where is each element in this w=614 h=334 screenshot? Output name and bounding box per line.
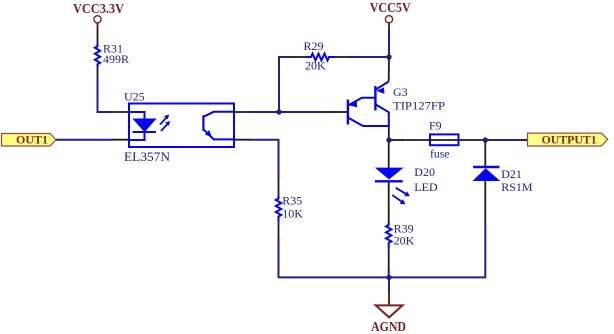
resistor R35 body — [276, 194, 303, 223]
svg-text:R35: R35 — [282, 194, 302, 208]
power port VCC3.3V — [73, 2, 124, 27]
svg-text:OUTPUT1: OUTPUT1 — [542, 134, 597, 146]
wire junction to OUTPUT1 — [485, 139, 527, 141]
svg-text:D21: D21 — [501, 167, 522, 181]
fuse F9 — [429, 119, 459, 161]
pin R29 left — [294, 56, 307, 58]
pin R35 top — [278, 180, 280, 196]
svg-text:VCC5V: VCC5V — [370, 1, 411, 16]
wire junction to fuse — [389, 139, 404, 141]
diode U25 internal LED — [130, 112, 156, 140]
pin R35 bottom — [278, 222, 280, 236]
transistor U25 phototransistor — [203, 112, 233, 140]
wire R39 to ground rail — [388, 269, 390, 277]
wire VCC5V down to junction — [388, 28, 390, 57]
svg-text:20K: 20K — [394, 234, 415, 248]
net label OUT1 — [2, 134, 57, 147]
svg-text:499R: 499R — [103, 52, 129, 66]
wire rail to AGND — [388, 277, 390, 293]
wire R35 to ground rail — [278, 235, 280, 278]
svg-text:RS1M: RS1M — [501, 180, 533, 194]
svg-text:D20: D20 — [414, 165, 435, 179]
svg-text:VCC3.3V: VCC3.3V — [73, 2, 124, 17]
pin G3 collector — [388, 126, 390, 140]
svg-text:G3: G3 — [393, 85, 408, 99]
svg-text:TIP127FP: TIP127FP — [393, 99, 445, 113]
pin G3 base — [335, 111, 347, 113]
wire D21 to ground rail — [279, 224, 486, 277]
pin D21 anode — [484, 181, 486, 225]
svg-text:U25: U25 — [124, 89, 145, 103]
pin R39 bottom — [388, 249, 390, 270]
pin R31 bottom — [97, 67, 99, 78]
svg-text:R29: R29 — [304, 39, 324, 53]
wire OUT1 to U25 pin2 — [56, 139, 113, 141]
pin R31 top — [97, 27, 99, 44]
pin D20 anode (from junction down) — [388, 140, 390, 168]
pin U25 collector — [234, 111, 251, 113]
U25 LED emission arrows — [160, 115, 170, 132]
wire junction up to R29 — [279, 57, 294, 111]
diode D20 LED — [375, 165, 438, 194]
wire R29 to VCC5V line — [350, 56, 390, 58]
junction node fuse/D21/OUTPUT1 — [483, 137, 488, 142]
resistor R29 body — [304, 39, 336, 73]
junction node ground rail / AGND — [386, 275, 391, 280]
svg-text:OUT1: OUT1 — [16, 135, 48, 147]
resistor R39 body — [386, 221, 415, 249]
junction node at R29 tap — [276, 109, 281, 114]
svg-text:10K: 10K — [282, 207, 303, 221]
pin U25 emitter — [234, 139, 251, 141]
pin U25 anode — [112, 111, 130, 113]
wire U25 emitter down through R35 — [250, 140, 279, 181]
resistor R31 body — [95, 42, 129, 68]
pin R29 right — [336, 56, 350, 58]
pin G3 emitter (VCC line down to transistor) — [388, 57, 390, 82]
pin U25 cathode — [112, 139, 130, 141]
D20 LED emission arrows — [392, 188, 410, 205]
pin fuse left lead — [403, 139, 486, 141]
optocoupler U25 box — [124, 89, 234, 164]
pin D21 cathode (down from junction) — [484, 140, 486, 167]
svg-text:F9: F9 — [429, 119, 442, 133]
diode D21 — [473, 167, 533, 194]
wire U25 collector to G3 base — [250, 111, 336, 113]
power port VCC5V — [370, 1, 411, 28]
junction node collector/D20/fuse — [386, 137, 391, 142]
wire R31 to U25 pin1 — [98, 78, 113, 112]
ground AGND power port — [371, 293, 406, 334]
svg-text:20K: 20K — [305, 59, 326, 73]
svg-text:AGND: AGND — [371, 320, 406, 334]
transistor G3 TIP127FP darlington — [348, 82, 445, 127]
junction node VCC5V / R29 — [386, 54, 391, 59]
svg-text:fuse: fuse — [430, 147, 450, 161]
net label OUTPUT1 — [528, 133, 608, 146]
pin D20 cathode to R39 — [388, 182, 390, 222]
svg-text:EL357N: EL357N — [124, 149, 171, 164]
svg-text:LED: LED — [414, 180, 438, 194]
